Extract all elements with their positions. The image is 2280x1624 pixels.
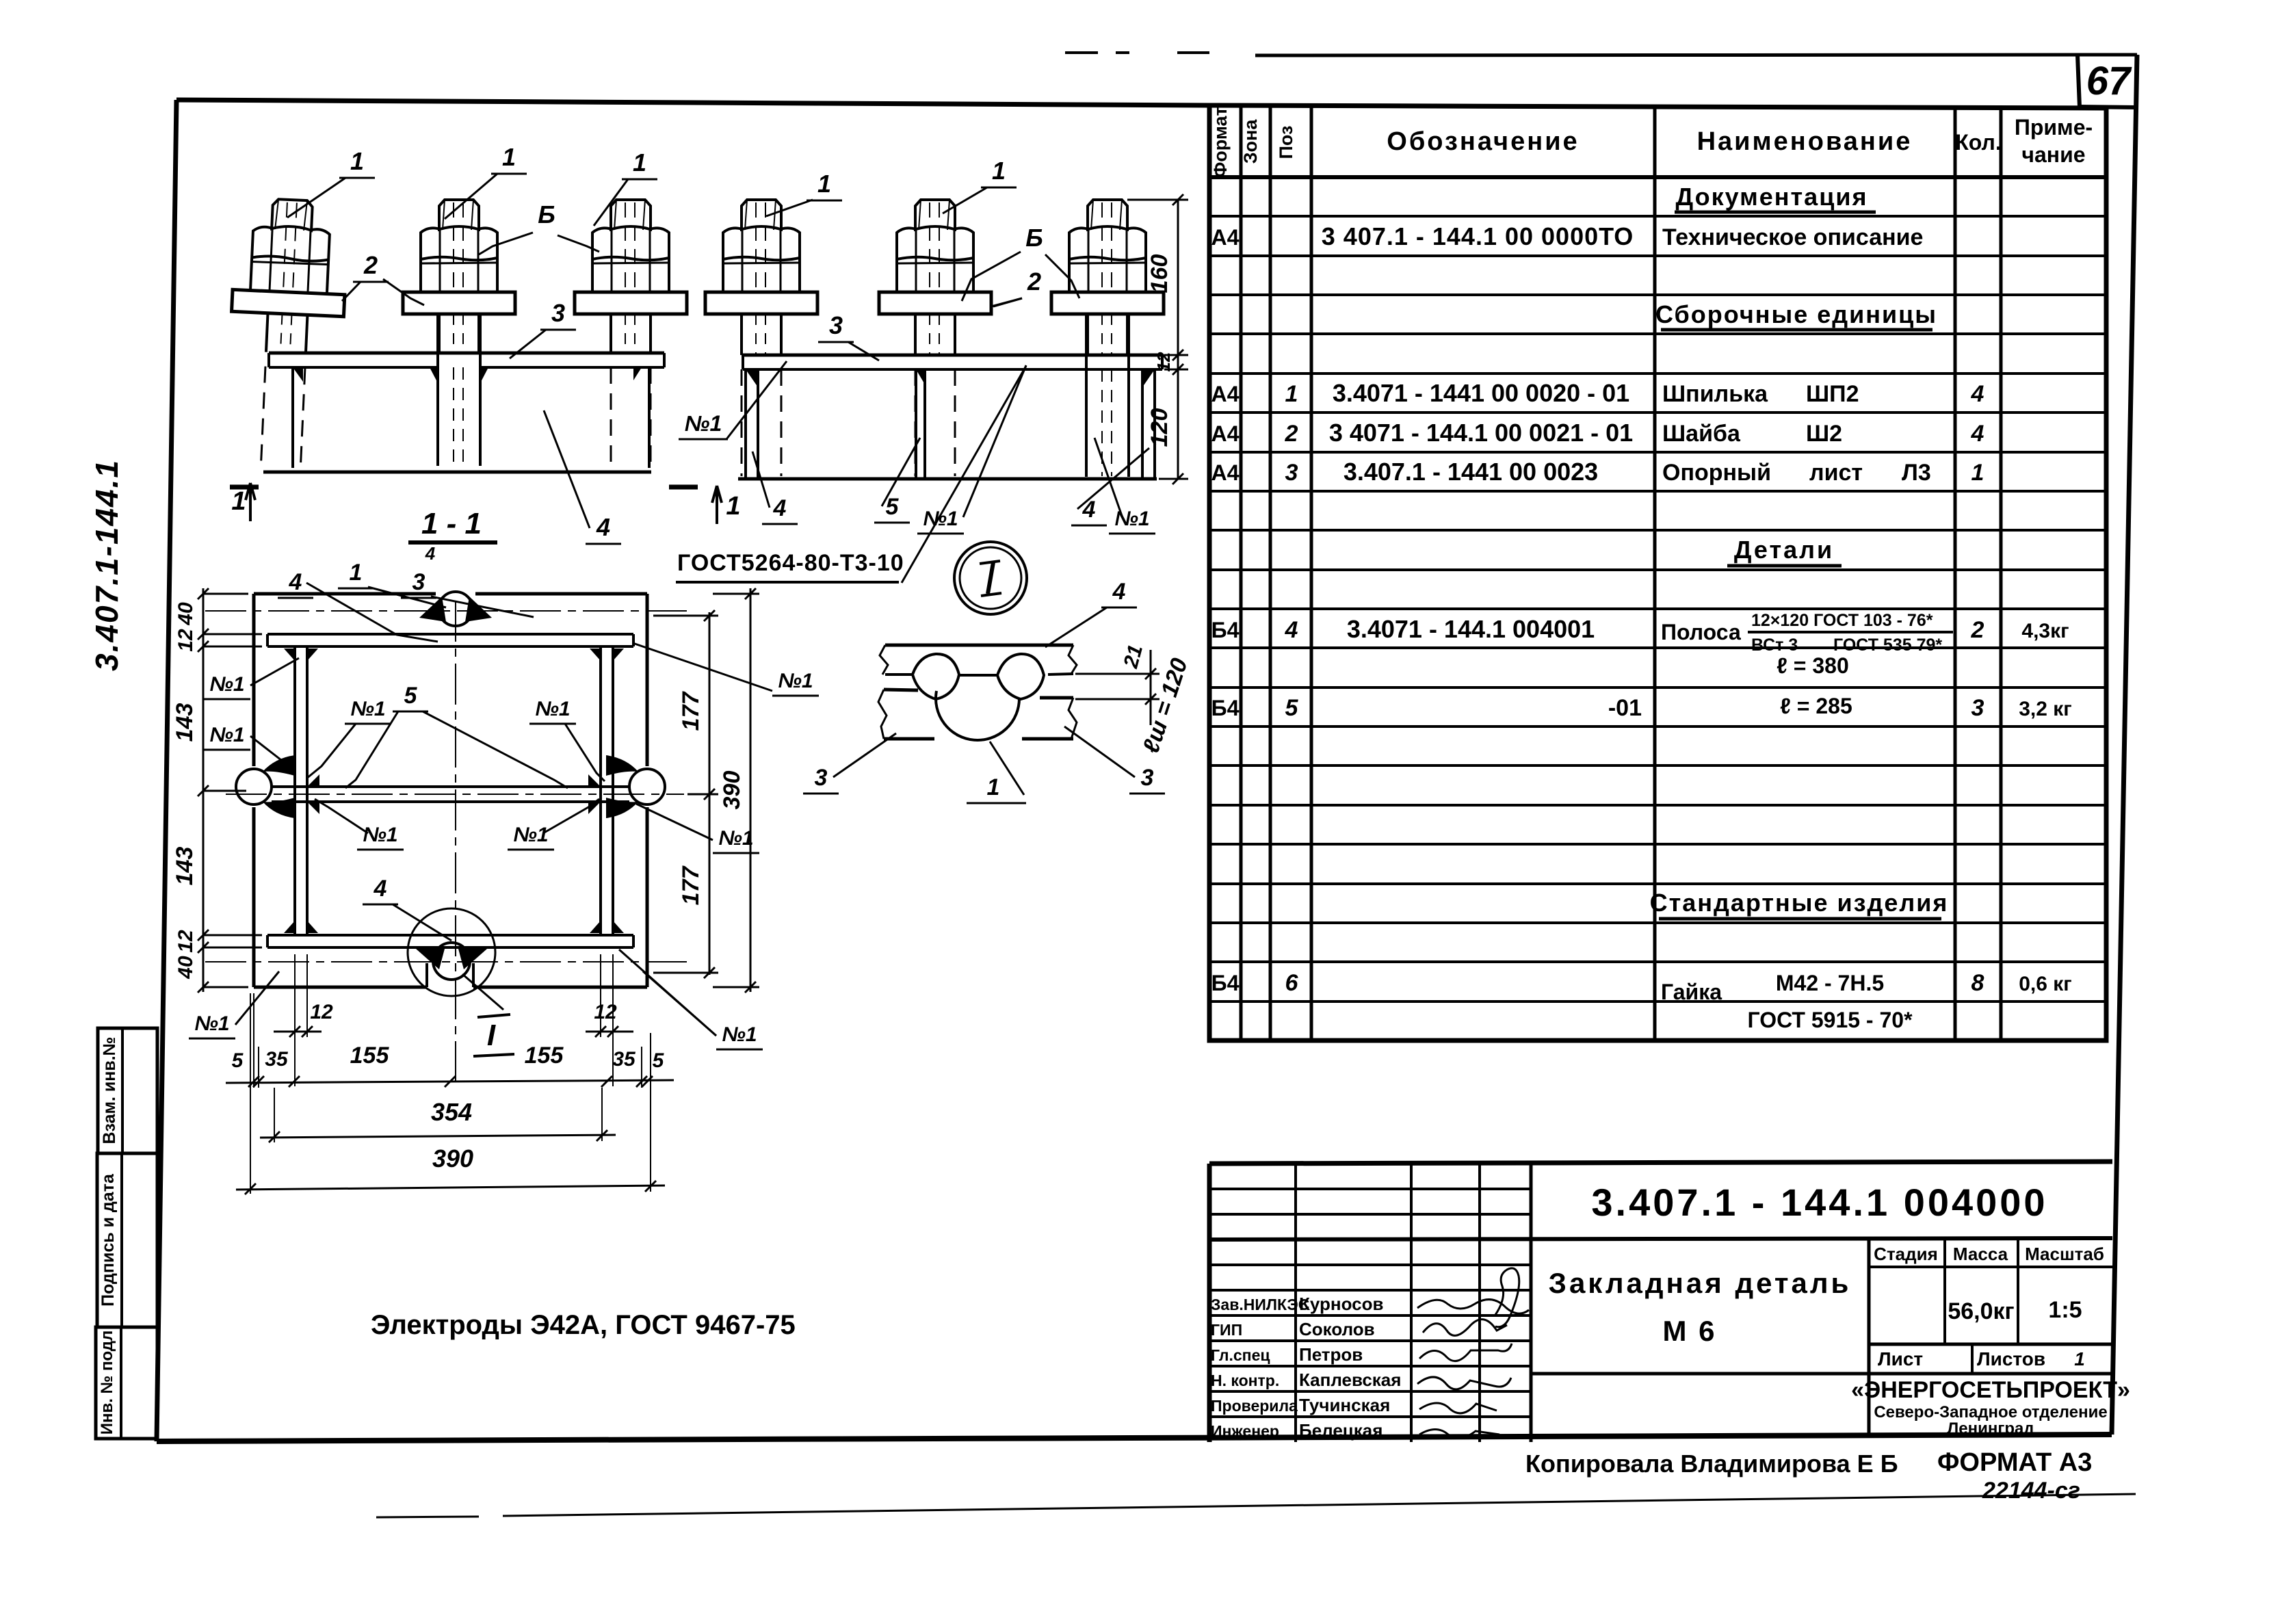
svg-text:Сборочные единицы: Сборочные единицы (1655, 300, 1937, 328)
plan centerlines (226, 794, 684, 795)
svg-text:67: 67 (2086, 59, 2132, 103)
svg-text:№1: №1 (209, 673, 244, 696)
plan upper strip (pos 4) (267, 633, 633, 636)
spec table row lines (1209, 215, 2106, 218)
svg-text:12: 12 (310, 1001, 333, 1023)
svg-text:4: 4 (374, 876, 387, 902)
svg-text:1: 1 (633, 148, 646, 176)
svg-text:А4: А4 (1211, 225, 1240, 250)
svg-text:5: 5 (653, 1049, 665, 1072)
detail I stud section circle (pos 1) (936, 691, 1019, 740)
svg-text:12: 12 (1153, 352, 1174, 371)
svg-text:Шайба: Шайба (1662, 421, 1741, 447)
section 1-1 block below plate (pos 4/5 strips) (291, 367, 294, 468)
plan lower strip (pos 4) (267, 934, 633, 937)
elevation strip edges (pos 4) left (744, 369, 747, 479)
svg-text:1: 1 (350, 560, 363, 586)
svg-text:Масса: Масса (1953, 1244, 2008, 1264)
svg-text:ℓ = 380: ℓ = 380 (1777, 653, 1849, 678)
svg-text:Ленинград: Ленинград (1947, 1419, 2034, 1438)
svg-text:0,6 кг: 0,6 кг (2019, 973, 2072, 995)
svg-text:Л3: Л3 (1902, 460, 1931, 486)
plan stud circle bottom (pos 1) with detail mark (425, 963, 428, 987)
svg-text:4: 4 (773, 495, 787, 521)
svg-text:5: 5 (404, 683, 418, 709)
svg-text:3.407.1-144.1: 3.407.1-144.1 (89, 459, 125, 671)
svg-text:Полоса: Полоса (1661, 620, 1741, 644)
svg-text:1: 1 (726, 492, 740, 521)
svg-text:Лист: Лист (1878, 1348, 1923, 1370)
sheet frame top border (left part) (176, 100, 1209, 105)
svg-text:№1: №1 (722, 1023, 757, 1046)
spec table header bottom line (1209, 175, 2106, 179)
plan dim 354 (260, 1135, 616, 1138)
svg-text:3: 3 (1971, 695, 1984, 721)
svg-text:М 6: М 6 (1662, 1315, 1716, 1347)
plan left vertical strip (pos 5) (293, 646, 296, 935)
svg-text:А4: А4 (1211, 421, 1240, 446)
sheet frame bottom border (157, 1435, 2112, 1441)
svg-text:56,0кг: 56,0кг (1948, 1298, 2014, 1324)
spec table column lines (1240, 105, 1243, 1040)
svg-text:1: 1 (502, 143, 516, 171)
svg-text:3.407.1 - 1441 00 0023: 3.407.1 - 1441 00 0023 (1344, 458, 1598, 486)
svg-text:Обозначение: Обозначение (1387, 127, 1579, 156)
plan support plate (pos 3) outline (254, 592, 436, 596)
svg-text:12×120 ГОСТ 103 - 76*: 12×120 ГОСТ 103 - 76* (1751, 611, 1933, 630)
svg-text:40: 40 (174, 602, 197, 626)
svg-text:35: 35 (265, 1048, 289, 1071)
svg-text:№1: №1 (718, 827, 753, 850)
detail I strip (pos 4) (885, 644, 1073, 647)
svg-text:А4: А4 (1211, 382, 1240, 406)
svg-text:22144-сг: 22144-сг (1982, 1478, 2080, 1504)
svg-text:Детали: Детали (1734, 536, 1834, 564)
svg-text:4: 4 (1971, 381, 1984, 407)
svg-text:А4: А4 (1211, 460, 1240, 485)
svg-text:4: 4 (1971, 421, 1984, 447)
section 1-1 stud bolt 3 (pos 1) (575, 200, 687, 465)
svg-text:Каплевская: Каплевская (1299, 1370, 1401, 1390)
svg-text:№1: №1 (513, 824, 548, 846)
svg-text:155: 155 (525, 1043, 564, 1069)
svg-text:3: 3 (1285, 460, 1298, 486)
detail I dim 21 (1075, 673, 1159, 675)
plan dim 12 bolt strips bottom (274, 1031, 322, 1033)
elevation strip edge (pos 5) middle (915, 369, 917, 479)
elevation bottom edge of strips (738, 477, 1157, 481)
svg-text:Инв. № подл: Инв. № подл (98, 1331, 116, 1435)
svg-text:№1: №1 (778, 670, 813, 692)
title block stadia massa masshtab cells (1869, 1266, 2112, 1268)
svg-text:№1: №1 (194, 1012, 229, 1035)
svg-text:4: 4 (1285, 617, 1298, 643)
svg-text:6: 6 (1285, 970, 1299, 996)
svg-text:Кол.: Кол. (1955, 130, 2002, 155)
svg-text:3: 3 (412, 569, 425, 595)
svg-text:40: 40 (174, 956, 197, 980)
svg-text:155: 155 (350, 1043, 390, 1069)
svg-text:1: 1 (350, 147, 364, 175)
plan right vertical strip (pos 5) (599, 646, 602, 935)
plan stud circle left (pos 1) (236, 769, 272, 804)
sheet frame right border (2112, 55, 2137, 1435)
svg-text:1: 1 (992, 157, 1006, 185)
title block designation cell line (1868, 1238, 1871, 1435)
elevation strip edges (pos 4) right (1141, 369, 1144, 479)
svg-text:№1: №1 (363, 824, 397, 846)
svg-text:Копировала Владимирова Е Б: Копировала Владимирова Е Б (1525, 1450, 1898, 1478)
svg-text:Документация: Документация (1676, 183, 1868, 211)
plan dim 390 bottom (236, 1186, 665, 1190)
svg-text:Шпилька: Шпилька (1662, 381, 1768, 407)
plan middle strip (pos 5) (272, 785, 629, 788)
svg-text:Б4: Б4 (1211, 971, 1240, 995)
svg-text:12: 12 (174, 629, 197, 652)
section mark 1 left arrow (230, 485, 259, 490)
svg-text:4: 4 (425, 543, 436, 564)
svg-text:№1: №1 (685, 411, 722, 436)
svg-text:Проверила: Проверила (1211, 1397, 1298, 1415)
weld designation leader line (902, 366, 1026, 583)
svg-text:5: 5 (1285, 695, 1299, 721)
svg-text:1: 1 (2074, 1348, 2085, 1370)
svg-text:177: 177 (678, 691, 704, 731)
svg-text:Петров: Петров (1299, 1344, 1363, 1365)
svg-text:Стадия: Стадия (1874, 1244, 1938, 1264)
svg-text:-01: -01 (1608, 695, 1642, 721)
svg-text:Техническое описание: Техническое описание (1662, 224, 1923, 250)
left margin stamp box: Inv. N podl (96, 1327, 157, 1439)
svg-text:Соколов: Соколов (1299, 1319, 1375, 1339)
svg-text:3.4071 - 1441 00 0020 - 01: 3.4071 - 1441 00 0020 - 01 (1333, 379, 1629, 407)
plan dim 390 right (750, 588, 752, 992)
plan stud circle right (pos 1) (629, 769, 665, 804)
svg-text:3: 3 (551, 299, 565, 327)
svg-text:1:5: 1:5 (2048, 1297, 2082, 1323)
section 1-1 weld fillets at plate (430, 367, 438, 383)
svg-text:Электроды Э42А, ГОСТ 9467-: Электроды Э42А, ГОСТ 9467-75 (371, 1310, 796, 1340)
detail I boundary circle on plan (408, 908, 495, 996)
svg-text:ГИП: ГИП (1211, 1321, 1242, 1339)
svg-text:Ш2: Ш2 (1806, 421, 1842, 447)
left margin stamp box: Podpis i data (97, 1153, 157, 1327)
plan stud circle top (pos 1) (438, 592, 473, 626)
svg-text:3.4071 - 144.1 004001: 3.4071 - 144.1 004001 (1347, 615, 1595, 643)
svg-text:35: 35 (612, 1048, 636, 1071)
svg-text:3.407.1 - 144.1 004000: 3.407.1 - 144.1 004000 (1591, 1181, 2047, 1224)
svg-text:Взам. инв.№: Взам. инв.№ (100, 1036, 119, 1144)
svg-text:Н. контр.: Н. контр. (1211, 1372, 1279, 1389)
section mark 1 right arrow (669, 485, 698, 490)
svg-text:№1: №1 (350, 698, 385, 720)
svg-text:3: 3 (829, 311, 843, 339)
svg-text:1: 1 (987, 774, 1000, 800)
svg-text:Приме-: Приме- (2015, 115, 2093, 140)
svg-text:354: 354 (431, 1098, 472, 1126)
elevation stud bolt 5 (pos 1) (879, 200, 991, 476)
svg-text:5: 5 (232, 1049, 244, 1072)
svg-text:Северо-Западное отделение: Северо-Западное отделение (1874, 1403, 2107, 1422)
elevation support plate (pos 3) (743, 354, 1162, 357)
section 1-1 stud bolt 1 (pos 1) (225, 197, 349, 467)
svg-text:12: 12 (174, 930, 197, 953)
svg-text:ВСт 3: ВСт 3 (1751, 636, 1798, 655)
svg-text:390: 390 (719, 771, 745, 810)
detail I weld beads (913, 654, 959, 699)
svg-text:Б4: Б4 (1211, 696, 1240, 720)
plan dim chain left (40/12/143/143/12/40) (202, 588, 205, 992)
bottom long line (376, 1517, 479, 1517)
svg-text:390: 390 (432, 1144, 473, 1173)
svg-text:3: 3 (815, 765, 828, 791)
svg-text:1: 1 (817, 170, 831, 198)
svg-text:1: 1 (231, 487, 246, 516)
svg-text:Формат: Формат (1210, 107, 1231, 178)
svg-text:ГОСТ5264-80-Т3-10: ГОСТ5264-80-Т3-10 (677, 550, 904, 576)
dimension 160 right side (1177, 200, 1179, 479)
svg-text:3 4071 - 144.1 00 0021 - 01: 3 4071 - 144.1 00 0021 - 01 (1329, 419, 1633, 447)
svg-text:Масштаб: Масштаб (2025, 1244, 2104, 1264)
svg-text:4: 4 (1112, 579, 1126, 605)
svg-text:3: 3 (1141, 765, 1154, 791)
title block signature grid (1209, 1188, 1531, 1190)
svg-text:Б4: Б4 (1211, 618, 1240, 642)
plan weld fillets at strips (284, 649, 295, 661)
sheet upper edge dashes (1065, 51, 1098, 54)
svg-text:3 407.1 - 144.1 00 0000ТО: 3 407.1 - 144.1 00 0000ТО (1322, 222, 1634, 250)
svg-text:Курносов: Курносов (1299, 1294, 1383, 1314)
svg-text:Гайка: Гайка (1661, 980, 1722, 1004)
svg-text:143: 143 (172, 847, 198, 886)
svg-text:М42 - 7Н.5: М42 - 7Н.5 (1776, 971, 1884, 995)
section 1-1 stud bolt 2 (pos 1) (403, 200, 515, 466)
svg-text:8: 8 (1971, 970, 1984, 996)
svg-text:Б: Б (1025, 224, 1043, 252)
sheet upper edge line (right part) (1255, 55, 2137, 55)
svg-text:143: 143 (172, 703, 198, 742)
elevation stud bolt 6 (pos 1) (1051, 200, 1164, 477)
svg-text:Зона: Зона (1240, 119, 1261, 164)
svg-text:Закладная деталь: Закладная деталь (1549, 1267, 1852, 1299)
svg-text:Опорный: Опорный (1662, 460, 1771, 486)
plan dim 177/177 right (709, 612, 711, 975)
svg-text:№1: №1 (209, 724, 244, 746)
svg-text:2: 2 (363, 251, 378, 279)
svg-text:Поз: Поз (1276, 126, 1296, 159)
svg-text:№1: №1 (535, 698, 570, 720)
svg-text:Б: Б (538, 200, 555, 228)
section 1-1 support plate (pos 3) (269, 352, 664, 355)
spec table outer border (1209, 105, 2106, 1040)
svg-text:I: I (487, 1019, 496, 1052)
svg-text:2: 2 (1285, 421, 1298, 447)
elevation weld fillets (746, 369, 758, 387)
title block handwritten signatures (1417, 1300, 1529, 1314)
svg-text:«ЭНЕРГОСЕТЬПРОЕКТ»: «ЭНЕРГОСЕТЬПРОЕКТ» (1851, 1377, 2130, 1403)
svg-text:Наименование: Наименование (1697, 127, 1913, 156)
detail I circled mark (954, 542, 1027, 614)
svg-text:Листов: Листов (1977, 1348, 2045, 1370)
svg-text:1 - 1: 1 - 1 (421, 507, 482, 540)
svg-text:4: 4 (289, 569, 302, 595)
page number box 67 (2078, 55, 2080, 107)
svg-text:1: 1 (1285, 381, 1298, 407)
svg-text:лист: лист (1809, 460, 1863, 486)
svg-text:Тучинская: Тучинская (1299, 1395, 1390, 1415)
svg-text:160: 160 (1146, 254, 1172, 293)
svg-text:Инженер: Инженер (1211, 1422, 1279, 1440)
svg-text:2: 2 (1027, 267, 1041, 296)
svg-text:3,2 кг: 3,2 кг (2019, 698, 2072, 720)
svg-text:177: 177 (678, 865, 704, 906)
svg-text:2: 2 (1971, 617, 1984, 643)
left margin stamp box: Vzam. inv. N (98, 1028, 157, 1153)
svg-text:чание: чание (2021, 142, 2085, 167)
svg-text:1: 1 (1971, 460, 1984, 486)
svg-text:ШП2: ШП2 (1806, 381, 1859, 407)
svg-text:12: 12 (594, 1001, 617, 1023)
detail I plate blocks (pos 3) (884, 690, 918, 690)
svg-text:Стандартные изделия: Стандартные изделия (1650, 889, 1949, 917)
svg-text:№1: №1 (923, 508, 958, 530)
elevation stud bolt 4 (pos 1) (705, 200, 817, 476)
svg-text:Зав.НИЛКЭС: Зав.НИЛКЭС (1211, 1296, 1309, 1313)
svg-text:Белецкая: Белецкая (1299, 1420, 1383, 1441)
svg-text:Гл.спец: Гл.спец (1211, 1346, 1270, 1364)
svg-text:ℓ = 285: ℓ = 285 (1780, 694, 1852, 718)
sheet frame left border (157, 100, 176, 1441)
plan dim chain bottom 5/35/155/155/35/5 (226, 1080, 674, 1083)
svg-text:120: 120 (1146, 408, 1172, 447)
svg-text:4,3кг: 4,3кг (2021, 620, 2069, 642)
svg-text:ГОСТ 535 79*: ГОСТ 535 79* (1833, 636, 1942, 655)
svg-text:Подпись и дата: Подпись и дата (99, 1173, 118, 1307)
svg-text:ГОСТ 5915 - 70*: ГОСТ 5915 - 70* (1747, 1008, 1913, 1032)
svg-text:4: 4 (596, 513, 610, 541)
svg-text:ФОРМАТ А3: ФОРМАТ А3 (1937, 1448, 2092, 1477)
title block outer border (157, 1162, 2113, 1441)
